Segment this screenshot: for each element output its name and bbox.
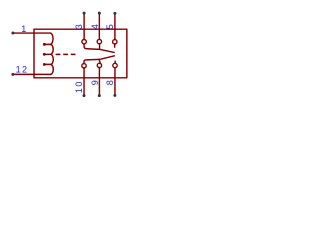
coil L1 arcs (50, 33, 53, 74)
pin 9 contact circle (97, 63, 101, 67)
pin 8 contact circle (113, 63, 117, 67)
pin 8 endpoint dot (113, 94, 116, 97)
pin 3 contact circle (82, 40, 86, 44)
svg-text:12: 12 (16, 65, 29, 75)
pin 4 contact circle (97, 39, 101, 43)
upper armature blade from pin 3 (84, 44, 114, 52)
body outline rectangle (34, 29, 127, 78)
svg-text:8: 8 (105, 80, 115, 85)
pin 4 vertical wire (98, 13, 100, 39)
svg-text:1: 1 (21, 24, 26, 34)
pin 5 contact circle (113, 40, 117, 44)
coil loop link 3 (44, 63, 50, 65)
pin 12 endpoint dot (11, 73, 14, 76)
svg-text:4: 4 (90, 24, 100, 29)
wire pin 1 (13, 32, 51, 34)
mechanical link dashed line (56, 53, 76, 55)
coil loop link 2 (44, 53, 50, 55)
pin 4 stub (99, 44, 101, 49)
coil loop circle 1 (43, 43, 45, 45)
svg-text:3: 3 (74, 24, 84, 29)
coil loop link 1 (44, 43, 50, 45)
pin 1 endpoint dot (11, 32, 14, 35)
pin 3 vertical wire (83, 13, 85, 39)
pin 9 vertical wire (98, 68, 100, 96)
svg-text:10: 10 (74, 80, 84, 93)
coil loop circle 3 (43, 63, 45, 65)
svg-text:9: 9 (90, 80, 100, 85)
svg-text:5: 5 (105, 24, 115, 29)
pin 10 vertical wire (83, 68, 85, 95)
pin 5 endpoint dot (113, 12, 116, 15)
pin 9 endpoint dot (98, 94, 101, 97)
pin 5 vertical wire (114, 13, 116, 39)
wire pin 12 (13, 73, 51, 75)
pin 8 vertical wire (114, 68, 116, 96)
pin 3 endpoint dot (83, 12, 86, 15)
pin 10 contact circle (82, 64, 86, 68)
coil loop circle 2 (43, 53, 45, 55)
pin 9 stub (99, 59, 100, 63)
pin 5 stub (114, 44, 116, 47)
relay K1 schematic symbol (0, 0, 137, 108)
pin 10 endpoint dot (83, 94, 86, 97)
lower armature blade from pin 10 (84, 56, 114, 64)
pin 4 endpoint dot (98, 12, 101, 15)
pin 8 stub (114, 61, 116, 63)
